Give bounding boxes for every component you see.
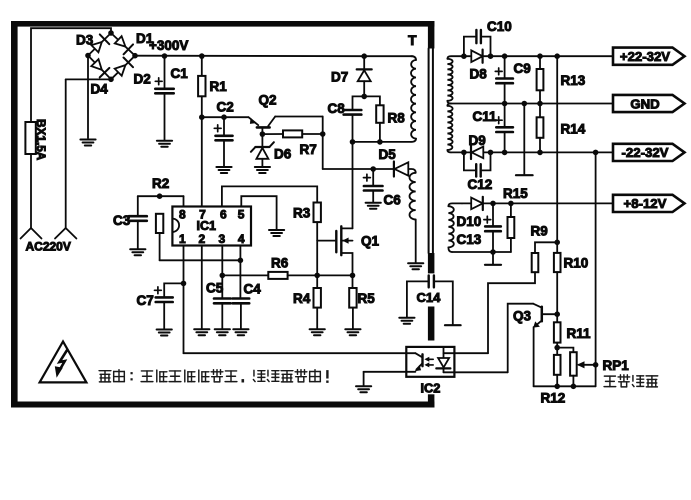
svg-text:D4: D4 <box>91 82 109 97</box>
svg-text:C2: C2 <box>217 100 234 115</box>
svg-text:R12: R12 <box>541 391 566 406</box>
svg-text:C14: C14 <box>417 290 442 305</box>
svg-text:+22-32V: +22-32V <box>620 49 670 64</box>
svg-text:5: 5 <box>238 207 245 221</box>
svg-text:GND: GND <box>630 96 659 111</box>
svg-text:R13: R13 <box>561 73 586 88</box>
svg-text:C5: C5 <box>206 281 224 296</box>
svg-text:D2: D2 <box>134 72 151 87</box>
svg-text:R1: R1 <box>210 79 228 94</box>
svg-text:IC2: IC2 <box>421 381 441 396</box>
svg-text:R3: R3 <box>293 206 311 221</box>
svg-text:D8: D8 <box>470 67 488 82</box>
svg-text:Q3: Q3 <box>513 309 532 324</box>
svg-text:AC220V: AC220V <box>26 240 71 254</box>
svg-text:4: 4 <box>238 232 245 246</box>
svg-text:+8-12V: +8-12V <box>624 196 667 211</box>
svg-text:R10: R10 <box>564 256 589 271</box>
svg-text:D3: D3 <box>76 33 94 48</box>
svg-text:D10: D10 <box>457 214 482 229</box>
svg-text:C6: C6 <box>384 193 402 208</box>
svg-text:C1: C1 <box>171 66 189 81</box>
svg-text:R4: R4 <box>293 291 311 306</box>
svg-text:3: 3 <box>219 232 226 246</box>
svg-text:C12: C12 <box>468 177 493 192</box>
svg-text:IC1: IC1 <box>197 219 217 233</box>
svg-text:1: 1 <box>179 232 186 246</box>
svg-text:T: T <box>408 32 417 48</box>
svg-text:R11: R11 <box>567 326 592 341</box>
svg-text:+300V: +300V <box>149 38 188 53</box>
svg-text:R2: R2 <box>152 176 169 191</box>
svg-text:D5: D5 <box>379 147 397 162</box>
svg-text:R5: R5 <box>358 291 376 306</box>
svg-text:Q1: Q1 <box>361 234 380 249</box>
svg-text:6: 6 <box>220 207 227 221</box>
svg-text:R6: R6 <box>271 256 289 271</box>
svg-text:R9: R9 <box>531 224 548 239</box>
svg-text:C10: C10 <box>487 19 512 34</box>
svg-text:BX1.5A: BX1.5A <box>34 119 48 161</box>
svg-text:C8: C8 <box>328 101 346 116</box>
svg-text:2: 2 <box>198 232 205 246</box>
svg-text:C9: C9 <box>514 61 531 76</box>
svg-text:RP1: RP1 <box>603 358 630 373</box>
svg-text:C13: C13 <box>457 232 482 247</box>
svg-text:C11: C11 <box>473 109 498 124</box>
svg-text:C3: C3 <box>113 213 131 228</box>
svg-text:R14: R14 <box>561 122 586 137</box>
svg-text:R8: R8 <box>388 111 406 126</box>
svg-text:C4: C4 <box>244 282 262 297</box>
svg-text:D9: D9 <box>469 133 486 148</box>
svg-text:8: 8 <box>179 207 186 221</box>
svg-text:Q2: Q2 <box>259 93 277 108</box>
svg-text:-22-32V: -22-32V <box>622 145 669 160</box>
svg-text:D6: D6 <box>274 147 292 162</box>
svg-text:R15: R15 <box>503 186 528 201</box>
svg-text:D7: D7 <box>331 70 348 85</box>
svg-text:R7: R7 <box>300 142 317 157</box>
svg-text:C7: C7 <box>137 293 154 308</box>
